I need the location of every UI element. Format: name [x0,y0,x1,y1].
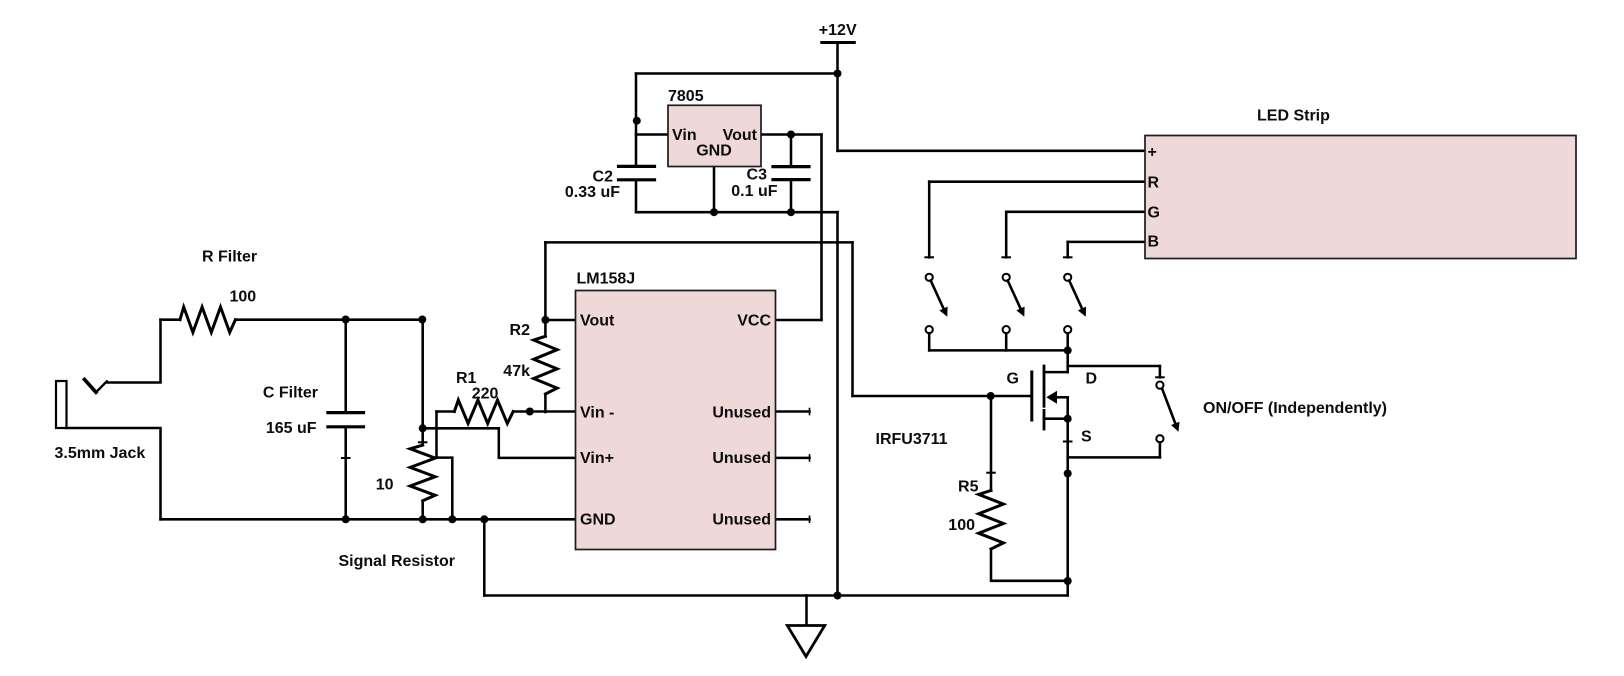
svg-text:LED Strip: LED Strip [1257,108,1330,125]
svg-text:220: 220 [472,386,499,403]
svg-text:C2: C2 [593,169,614,186]
svg-text:IRFU3711: IRFU3711 [876,431,948,448]
svg-text:+: + [1148,144,1157,161]
svg-text:D: D [1086,371,1098,388]
svg-text:Unused: Unused [712,450,771,467]
svg-text:+12V: +12V [819,22,857,39]
svg-text:R2: R2 [510,322,531,339]
svg-text:0.1 uF: 0.1 uF [731,183,777,200]
svg-text:7805: 7805 [668,88,704,105]
svg-text:Signal Resistor: Signal Resistor [339,553,455,570]
svg-text:100: 100 [230,289,257,306]
svg-text:LM158J: LM158J [577,271,636,288]
svg-text:GND: GND [580,512,616,529]
svg-text:100: 100 [948,517,975,534]
svg-text:G: G [1007,371,1019,388]
svg-text:S: S [1081,429,1092,446]
svg-text:R Filter: R Filter [202,249,257,266]
svg-text:R1: R1 [456,370,477,387]
svg-text:47k: 47k [503,363,530,380]
svg-text:Vin: Vin [672,127,697,144]
svg-text:ON/OFF (Independently): ON/OFF (Independently) [1203,400,1387,417]
svg-text:R5: R5 [958,479,979,496]
svg-text:Vout: Vout [580,312,615,329]
svg-text:Vout: Vout [723,127,758,144]
svg-text:G: G [1148,204,1160,221]
svg-text:3.5mm Jack: 3.5mm Jack [55,445,146,462]
svg-text:GND: GND [696,143,732,160]
svg-text:Unused: Unused [712,404,771,421]
svg-text:B: B [1148,234,1160,251]
svg-text:Vin -: Vin - [580,404,614,421]
svg-text:R: R [1148,174,1160,191]
svg-text:165 uF: 165 uF [266,420,317,437]
svg-text:Vin+: Vin+ [580,450,614,467]
svg-text:10: 10 [376,477,394,494]
svg-text:VCC: VCC [737,312,771,329]
svg-text:0.33 uF: 0.33 uF [565,184,620,201]
svg-text:C3: C3 [747,167,768,184]
svg-text:C Filter: C Filter [263,385,318,402]
svg-text:Unused: Unused [712,512,771,529]
